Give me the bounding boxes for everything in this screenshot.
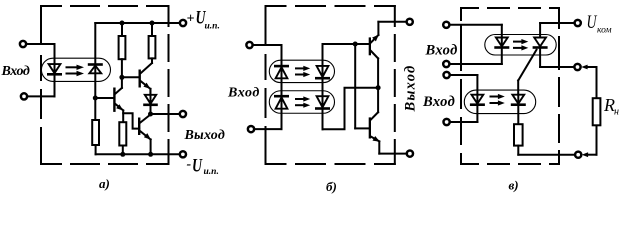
- svg-text:н: н: [614, 107, 619, 118]
- svg-text:Выход: Выход: [403, 65, 419, 113]
- svg-text:Вход: Вход: [1, 64, 30, 79]
- svg-text:+: +: [187, 12, 195, 27]
- svg-text:и.п.: и.п.: [204, 167, 219, 177]
- svg-text:Вход: Вход: [425, 43, 458, 59]
- svg-text:Вход: Вход: [422, 94, 455, 110]
- svg-text:Вход: Вход: [227, 86, 260, 101]
- svg-text:и.п.: и.п.: [205, 22, 220, 32]
- svg-text:-: -: [187, 157, 192, 172]
- svg-text:б): б): [326, 179, 337, 194]
- svg-text:в): в): [509, 178, 519, 193]
- svg-text:U: U: [587, 12, 598, 33]
- svg-text:ком: ком: [597, 26, 612, 36]
- svg-text:U: U: [192, 156, 203, 177]
- svg-text:Выход: Выход: [184, 128, 225, 143]
- svg-text:а): а): [99, 176, 110, 191]
